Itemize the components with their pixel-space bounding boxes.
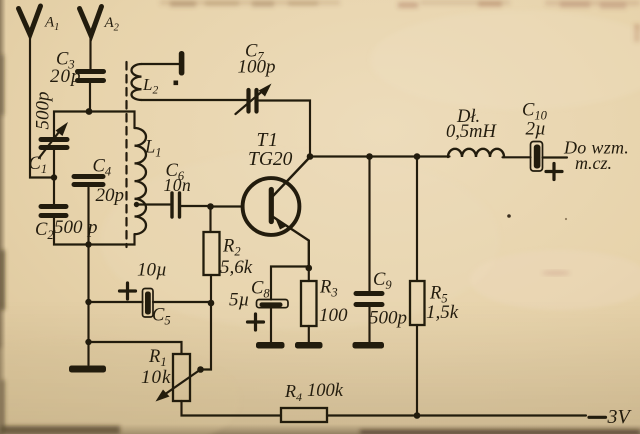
page edge shading xyxy=(0,0,6,434)
wire emitter node left xyxy=(271,267,309,300)
inductor L1 xyxy=(135,128,147,234)
ink specks xyxy=(507,214,511,218)
wire C5 to R2 bottom xyxy=(153,301,211,303)
arrow of C1 xyxy=(39,128,62,158)
wire C1 top link xyxy=(54,112,89,138)
emitter arrowhead xyxy=(275,217,288,230)
wire C10 to output xyxy=(543,156,568,158)
resistor R2 xyxy=(204,232,220,275)
svg-text:100k: 100k xyxy=(307,381,344,401)
wire choke to C10 xyxy=(503,156,531,158)
svg-text:100: 100 xyxy=(319,305,348,326)
wire R1 row xyxy=(89,342,182,354)
wire top rail xyxy=(310,155,450,157)
wire A2 to C3 xyxy=(89,34,91,69)
wire R1 bottom to rail xyxy=(182,401,282,416)
transistor collector stroke xyxy=(273,158,310,197)
supply dash xyxy=(589,416,606,419)
transistor emitter stroke xyxy=(273,217,309,269)
wire R5 column xyxy=(416,157,418,282)
wire C8 to ground xyxy=(270,308,272,342)
svg-text:20p: 20p xyxy=(96,185,125,206)
wire C7 to collector node xyxy=(259,101,310,157)
terminal bar xyxy=(179,51,185,76)
resistor R5 xyxy=(410,281,425,325)
wire A1 stem xyxy=(30,33,54,178)
svg-text:p: p xyxy=(86,217,98,238)
wire R3 top xyxy=(308,268,310,281)
svg-text:500p: 500p xyxy=(33,92,54,130)
arrow of R1 wiper xyxy=(161,370,201,398)
core dot mark xyxy=(174,81,179,86)
antenna A1 xyxy=(19,6,41,35)
ground (R3) xyxy=(295,342,323,349)
svg-text:10µ: 10µ xyxy=(137,260,167,281)
wire L1 tap to C6 xyxy=(137,203,171,205)
inductor L2 xyxy=(132,64,142,100)
capacitor C5 xyxy=(143,289,154,318)
svg-text:5µ: 5µ xyxy=(229,290,249,311)
transistor base bar xyxy=(269,190,274,222)
wire C5 row left xyxy=(89,301,143,303)
wire C1 to C2 xyxy=(53,150,55,204)
wire C2 down to node xyxy=(54,218,89,245)
wire R2 top xyxy=(209,207,211,233)
capacitor C1 xyxy=(41,140,67,148)
svg-text:5,6k: 5,6k xyxy=(220,257,253,278)
svg-text:10n: 10n xyxy=(164,175,192,195)
wire L2 top lead xyxy=(142,63,180,65)
resistor R4 xyxy=(281,408,327,422)
capacitor C6 xyxy=(172,193,180,217)
antenna A2 xyxy=(80,7,102,36)
transistor T1 circle xyxy=(243,178,300,235)
capacitor C9 xyxy=(356,294,382,305)
capacitor C8 xyxy=(257,300,289,308)
wire C6 to base node xyxy=(181,205,211,207)
svg-text:3V: 3V xyxy=(607,406,633,428)
wire base lead xyxy=(211,205,243,207)
resistor R3 xyxy=(301,281,317,326)
wire L1 bottom xyxy=(89,235,135,245)
svg-text:10k: 10k xyxy=(141,367,171,388)
ground (left) xyxy=(69,366,106,373)
svg-text:2µ: 2µ xyxy=(526,119,546,140)
svg-text:100p: 100p xyxy=(238,57,276,78)
plus of C10 xyxy=(546,164,562,180)
svg-text:TG20: TG20 xyxy=(248,149,293,170)
arrow of C7 xyxy=(236,88,267,114)
capacitor C4 xyxy=(74,177,103,185)
wire C9 column xyxy=(368,157,370,292)
svg-text:T1: T1 xyxy=(257,130,279,151)
wire node row to L1 xyxy=(89,112,135,129)
wire L2 bottom to C7 xyxy=(142,99,247,101)
plus of C8 xyxy=(248,314,264,330)
wire main left vertical xyxy=(87,188,89,366)
wire C3 to node xyxy=(89,83,91,112)
ground (C8) xyxy=(256,342,285,349)
resistor R1 xyxy=(173,354,190,401)
wire R2 bottom xyxy=(210,275,212,303)
capacitor C3 xyxy=(78,72,104,81)
ground (C9) xyxy=(353,342,385,349)
svg-text:500p: 500p xyxy=(369,308,407,329)
bottom vignette xyxy=(0,0,1,1)
plus of C5 xyxy=(120,283,136,299)
svg-text:20p: 20p xyxy=(50,66,82,87)
wire R3 bottom xyxy=(308,326,310,342)
choke Dl xyxy=(448,149,504,157)
capacitor C2 xyxy=(41,207,66,216)
svg-text:m.cz.: m.cz. xyxy=(575,153,612,173)
wire bottom rail right xyxy=(327,414,586,416)
svg-text:1,5k: 1,5k xyxy=(426,302,459,323)
wire C9 bottom xyxy=(368,307,370,342)
wire R5 bottom xyxy=(416,325,418,416)
capacitor C7 xyxy=(249,90,257,112)
svg-text:500: 500 xyxy=(54,217,83,238)
svg-text:0,5mH: 0,5mH xyxy=(446,122,497,142)
wire R2 node down to wiper xyxy=(201,303,212,370)
dashed core line xyxy=(125,62,127,247)
capacitor C10 xyxy=(531,142,543,172)
